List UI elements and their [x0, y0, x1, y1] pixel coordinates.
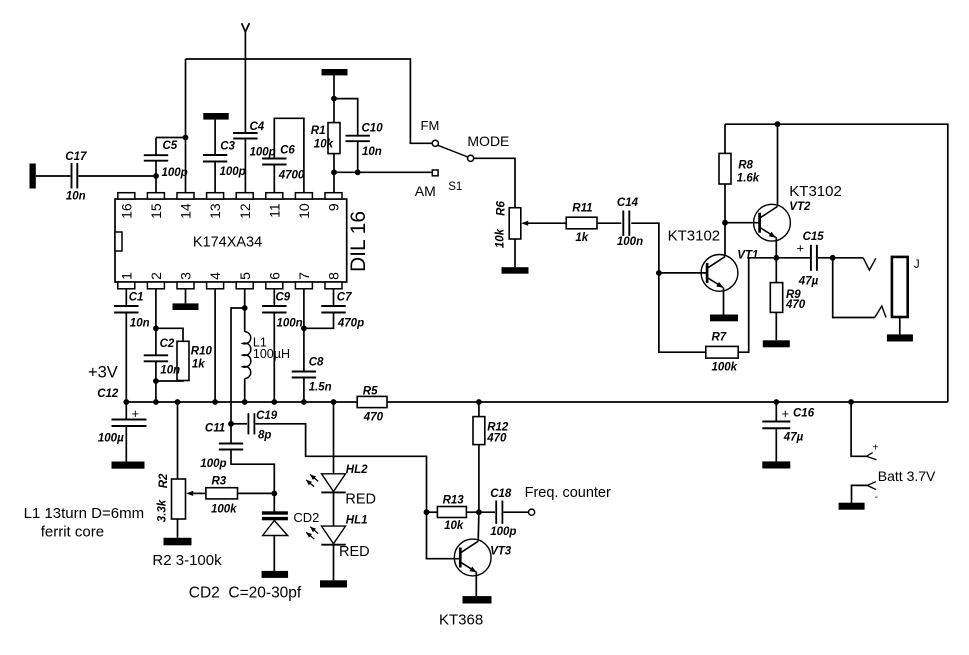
svg-text:100n: 100n	[617, 236, 643, 248]
svg-text:R2 3-100k: R2 3-100k	[152, 552, 222, 569]
svg-text:470: 470	[363, 411, 384, 423]
svg-text:3: 3	[178, 272, 194, 280]
svg-text:C14: C14	[617, 197, 639, 209]
svg-text:8: 8	[326, 272, 342, 280]
svg-text:11: 11	[266, 203, 282, 218]
svg-text:+: +	[132, 406, 140, 421]
svg-text:10k: 10k	[495, 228, 507, 248]
svg-text:C3: C3	[220, 141, 235, 153]
svg-text:10n: 10n	[66, 191, 86, 203]
svg-text:Batt 3.7V: Batt 3.7V	[878, 468, 936, 484]
svg-text:100n: 100n	[277, 317, 303, 329]
svg-text:R2: R2	[158, 473, 170, 488]
svg-text:+: +	[873, 442, 879, 453]
svg-text:47µ: 47µ	[798, 276, 819, 288]
svg-text:C16: C16	[793, 408, 815, 420]
svg-text:C1: C1	[129, 291, 144, 303]
svg-text:VT3: VT3	[490, 546, 512, 558]
svg-text:4700: 4700	[278, 170, 305, 182]
svg-text:R1: R1	[311, 125, 326, 137]
svg-text:C12: C12	[97, 388, 119, 400]
svg-text:C9: C9	[276, 291, 291, 303]
svg-text:100µ: 100µ	[98, 433, 124, 445]
svg-text:2: 2	[148, 272, 164, 280]
svg-text:8p: 8p	[258, 430, 271, 442]
svg-text:C2: C2	[160, 338, 175, 350]
svg-text:4: 4	[207, 272, 223, 280]
svg-text:VT2: VT2	[789, 201, 811, 213]
svg-text:R5: R5	[363, 385, 378, 397]
svg-text:C4: C4	[250, 121, 265, 133]
svg-text:C17: C17	[65, 151, 87, 163]
svg-text:K174XA34: K174XA34	[193, 235, 262, 251]
svg-text:100p: 100p	[220, 166, 246, 178]
svg-text:10n: 10n	[130, 317, 150, 329]
svg-text:14: 14	[178, 203, 194, 219]
svg-text:1: 1	[118, 272, 134, 280]
svg-text:AM: AM	[415, 183, 436, 199]
svg-text:12: 12	[237, 203, 253, 219]
svg-text:C19: C19	[256, 410, 278, 422]
svg-text:470: 470	[785, 299, 806, 311]
svg-text:HL2: HL2	[346, 464, 368, 476]
svg-text:100k: 100k	[712, 361, 738, 373]
svg-text:100p: 100p	[490, 526, 516, 538]
svg-text:1k: 1k	[575, 232, 588, 244]
svg-text:1.5n: 1.5n	[309, 382, 332, 394]
svg-text:5: 5	[237, 272, 253, 280]
svg-text:+3V: +3V	[88, 363, 118, 381]
svg-text:FM: FM	[421, 118, 440, 133]
svg-text:10n: 10n	[160, 365, 180, 377]
svg-text:10k: 10k	[314, 138, 334, 150]
svg-text:R10: R10	[191, 345, 213, 357]
svg-text:C10: C10	[362, 123, 384, 135]
svg-text:KT3102: KT3102	[789, 183, 842, 200]
svg-text:13: 13	[207, 203, 223, 219]
svg-text:100p: 100p	[250, 146, 276, 158]
svg-text:ferrit core: ferrit core	[41, 523, 104, 540]
svg-text:VT1: VT1	[737, 250, 758, 262]
svg-text:HL1: HL1	[346, 515, 368, 527]
svg-text:100p: 100p	[200, 458, 226, 470]
svg-text:16: 16	[118, 203, 134, 219]
svg-text:J: J	[914, 259, 920, 271]
svg-text:RED: RED	[345, 492, 376, 508]
svg-text:+: +	[797, 240, 805, 255]
svg-text:Freq. counter: Freq. counter	[525, 485, 611, 501]
svg-text:10k: 10k	[444, 520, 464, 532]
svg-text:1.6k: 1.6k	[737, 173, 760, 185]
svg-text:C8: C8	[309, 356, 324, 368]
svg-text:+: +	[782, 406, 790, 421]
svg-text:6: 6	[266, 272, 282, 280]
svg-text:C18: C18	[490, 488, 512, 500]
svg-text:CD2 C=20-30pf: CD2 C=20-30pf	[189, 585, 302, 602]
svg-text:470: 470	[486, 433, 507, 445]
svg-text:C5: C5	[163, 140, 178, 152]
svg-text:-: -	[875, 492, 878, 503]
svg-text:C7: C7	[337, 291, 352, 303]
svg-text:DIL 16: DIL 16	[347, 211, 370, 272]
svg-text:R11: R11	[572, 202, 592, 214]
svg-text:R8: R8	[738, 160, 753, 172]
svg-text:7: 7	[296, 272, 312, 280]
svg-text:3.3k: 3.3k	[157, 499, 169, 522]
svg-text:10: 10	[296, 203, 312, 219]
svg-text:15: 15	[148, 203, 164, 219]
svg-text:470p: 470p	[337, 317, 364, 329]
svg-text:10n: 10n	[362, 146, 382, 158]
svg-text:100µH: 100µH	[253, 347, 290, 361]
svg-text:C15: C15	[803, 231, 825, 243]
svg-text:KT3102: KT3102	[668, 228, 721, 245]
svg-text:100p: 100p	[162, 167, 188, 179]
svg-text:R7: R7	[712, 332, 727, 344]
svg-text:C11: C11	[205, 423, 225, 435]
svg-text:R13: R13	[443, 495, 465, 507]
svg-text:R6: R6	[496, 201, 508, 216]
svg-text:KT368: KT368	[439, 611, 483, 628]
svg-text:CD2: CD2	[293, 510, 319, 525]
svg-text:MODE: MODE	[467, 133, 509, 149]
svg-text:R3: R3	[212, 476, 227, 488]
svg-text:L1 13turn D=6mm: L1 13turn D=6mm	[24, 505, 144, 522]
svg-text:S1: S1	[448, 181, 462, 193]
svg-text:1k: 1k	[192, 358, 205, 370]
svg-text:9: 9	[326, 203, 342, 211]
svg-text:100k: 100k	[211, 504, 237, 516]
svg-text:C6: C6	[280, 145, 295, 157]
svg-text:RED: RED	[339, 544, 370, 560]
svg-text:47µ: 47µ	[783, 432, 804, 444]
